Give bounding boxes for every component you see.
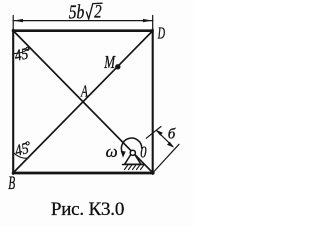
b dimension arrowhead upper — [156, 130, 163, 136]
pivot ground hatching — [125, 165, 145, 170]
diagonal wire from top-left corner to pivot corner — [14, 32, 152, 173]
omega arc arrowhead — [121, 151, 126, 158]
point M dot — [115, 64, 120, 69]
svg-text:45: 45 — [13, 140, 31, 160]
svg-text:B: B — [8, 173, 15, 194]
label 45 deg at B — [13, 140, 33, 161]
svg-text:A: A — [80, 82, 88, 101]
dimension line 5b√2 — [13, 20, 153, 22]
square plate left edge — [12, 30, 14, 175]
omega rotation arc — [121, 138, 141, 154]
dimension arrowhead right — [143, 19, 153, 22]
label 45 deg top-left — [13, 45, 32, 65]
svg-text:б: б — [168, 126, 176, 142]
b dimension arrowhead lower — [167, 142, 174, 148]
svg-text:45: 45 — [13, 46, 30, 66]
dimension arrowhead left — [13, 19, 23, 22]
b dimension arrow line — [157, 131, 173, 146]
pivot support base line — [123, 164, 144, 166]
caption Рис. К3.0 — [0, 200, 175, 219]
45 degree arc at corner B — [13, 153, 27, 159]
pivot pin circle O — [130, 150, 135, 155]
b dimension extension line through corner — [154, 144, 179, 171]
b dimension extension line through O — [146, 127, 161, 139]
diagonal wire B to D — [14, 32, 152, 173]
dimension extension line left — [12, 16, 14, 30]
svg-text:D: D — [157, 24, 165, 42]
svg-text:M: M — [103, 53, 115, 73]
svg-text:5b: 5b — [69, 1, 85, 23]
square plate top edge — [13, 29, 153, 32]
square plate right edge — [152, 30, 154, 175]
45 degree arc at top-left corner — [13, 48, 30, 54]
svg-text:0: 0 — [140, 144, 147, 162]
svg-text:2: 2 — [94, 1, 101, 22]
svg-text:ω: ω — [106, 142, 118, 161]
pivot support triangle — [125, 155, 141, 165]
square plate bottom edge — [13, 172, 153, 175]
dimension extension line right — [152, 16, 154, 30]
